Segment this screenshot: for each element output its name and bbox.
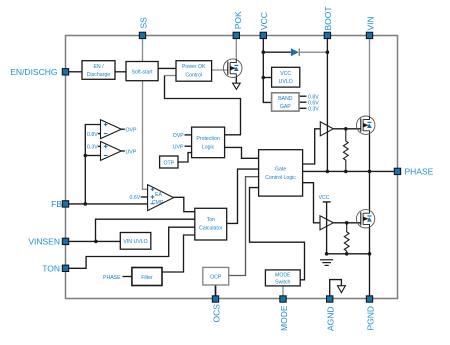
block Protection Logic [192,127,225,158]
wire VINSEN pin to VIN UVLO [69,240,120,242]
transistor Q3 low-side MOSFET [356,210,374,228]
svg-text:VCC: VCC [259,12,269,30]
op-amp comparator OVP [101,120,122,139]
svg-text:BOOT: BOOT [323,6,333,30]
VCC supply bar [323,201,331,203]
wire Power OK Control to Q1 gate [212,69,228,71]
node TON [62,265,68,271]
wire SS pin to EA CMP plus input [143,39,148,190]
svg-text:POK: POK [233,11,243,29]
svg-text:FB: FB [51,199,62,209]
wire VCC to diode anode [263,51,291,53]
svg-text:Power OK: Power OK [182,64,206,70]
wire ground row [327,253,370,255]
wire band gap stub 0.8V [299,95,307,97]
svg-text:UVP: UVP [173,144,184,150]
wire low-side driver output to Q3 gate [333,222,361,224]
wire MODE Switch to MODE pin [282,286,284,296]
wire band gap stub 0.3V [299,107,307,109]
block Gate Control Logic [259,150,303,196]
comparator plus/minus marks [104,123,154,204]
wire Q2 source to phase row [369,134,371,171]
wire Gate Control Logic to low-side driver [259,183,320,223]
wire VCC branch to VCC UVLO [263,77,271,79]
wire FB pin to EA CMP minus input [69,203,148,205]
ground arrow at AGND [338,286,346,293]
block BAND GAP [272,93,299,111]
svg-text:Logic: Logic [202,144,215,150]
node VINSEN [62,238,68,244]
svg-text:PHASE: PHASE [103,275,121,281]
node POK [233,32,239,38]
wire UVP comparator minus input [85,155,100,157]
wire TON pin to Ton Calculator [69,227,195,268]
wire EA CMP output to Ton Calculator [174,197,195,211]
node SS [139,32,145,38]
wire 0.3V stub to UVP comparator [98,145,101,147]
svg-text:OTP: OTP [163,160,174,166]
svg-text:UVP: UVP [126,149,137,155]
block OTP [160,156,178,168]
block Filter [132,268,162,286]
wire band gap stub 0.6V [299,101,307,103]
wire Power OK Control to Protection Logic loop [165,75,177,77]
wire Filter to Ton Calculator [162,235,195,272]
wire VCC pin down to BAND GAP [263,39,271,103]
svg-text:MODE: MODE [279,305,289,331]
svg-text:MODE: MODE [275,273,291,279]
svg-text:Protection: Protection [196,136,219,142]
wire OCP to Gate Control Logic [229,177,259,276]
svg-text:VIN: VIN [365,16,375,30]
op-amp error comparator EA CMP [148,185,174,211]
svg-text:VINSEN: VINSEN [28,237,60,247]
svg-text:Gate: Gate [275,167,286,173]
wire Ton Calculator to Gate Control Logic [227,169,259,223]
svg-text:GAP: GAP [280,104,291,110]
transistor Q2 high-side MOSFET [357,116,375,134]
svg-text:VCC: VCC [280,71,291,77]
node OCS [212,296,218,302]
wire POK pin to Q1 drain [235,39,237,59]
wire VINSEN branch to Ton Calculator [96,219,195,241]
svg-text:EN /: EN / [93,64,104,70]
svg-text:VIN UVLO: VIN UVLO [123,239,147,245]
block MODE Switch [265,270,300,286]
svg-text:EA: EA [155,192,162,198]
block Ton Calculator [195,208,227,240]
svg-text:0.6V: 0.6V [130,195,141,201]
block VCC UVLO [272,67,300,87]
wire 0.8V stub to OVP comparator [98,133,101,135]
block EN/Discharge [82,61,115,80]
svg-text:0.3V: 0.3V [87,145,98,151]
svg-text:BAND: BAND [278,96,293,102]
node EN/DISCHG [62,69,68,75]
svg-text:AGND: AGND [326,306,336,331]
wire AGND pin to ground arrow [330,280,342,296]
high-side gate driver buffer [320,122,333,136]
node VIN [366,32,372,38]
svg-text:Ton: Ton [207,217,215,223]
svg-text:OCP: OCP [210,275,222,281]
wire diode cathode to BOOT line [299,51,327,53]
svg-text:EN/DISCHG: EN/DISCHG [10,67,57,77]
node BOOT [324,32,330,38]
transistor Q1 POK open-drain MOSFET [223,59,242,78]
wire Soft-start to Power OK Control [158,67,176,69]
svg-text:0.8V: 0.8V [87,132,98,138]
node PGND [366,296,372,302]
ground symbol (3 bars) [320,260,333,266]
svg-text:PGND: PGND [365,306,375,331]
node AGND [327,296,333,302]
wire OTP to Protection Logic [178,153,192,162]
wire VIN pin down to Q2 drain [369,39,371,116]
svg-text:Calculator: Calculator [199,226,223,232]
svg-text:UVLO: UVLO [279,79,293,85]
svg-text:Soft-start: Soft-start [131,69,153,75]
wire Gate Control Logic to high-side driver [259,129,321,164]
svg-text:Control Logic: Control Logic [265,175,296,181]
outer IC boundary [66,36,398,299]
low-side gate driver buffer [320,216,333,230]
wire phase row to Q3 drain [369,171,371,209]
wire Q1 source to ground arrow [235,77,237,83]
wire EN/DISCHG pin to EN/Discharge block [69,71,82,73]
wire EN/Discharge to Soft-start [115,71,126,73]
svg-text:PHASE: PHASE [405,167,434,177]
wire FB branch up to OVP/UVP comparators [85,125,100,204]
wire Protection Logic to Gate Control Logic [225,147,259,158]
svg-text:SS: SS [138,17,148,29]
svg-text:CMP: CMP [152,200,164,206]
diode D1 VCC to BOOT [291,48,299,56]
op-amp comparator UVP [101,142,122,161]
IC pins (squares) [62,32,400,302]
svg-text:OVP: OVP [126,128,137,134]
resistor R1 high-side gate [343,129,348,172]
svg-text:Switch: Switch [275,280,290,286]
wire UVP comparator output [121,150,125,152]
wire OVP comparator output [121,128,125,130]
resistor R2 low-side gate [344,223,349,254]
block Soft-start [126,62,158,81]
svg-text:OVP: OVP [173,133,184,139]
block OCP [203,267,229,285]
svg-text:VCC: VCC [319,195,330,201]
node PHASE [394,168,400,174]
block VIN UVLO [120,233,151,250]
svg-text:OCS: OCS [211,304,221,323]
wire 0.6V stub to EA CMP [141,196,148,198]
node VCC [260,32,266,38]
wire VCC supply bar to low-side driver and ground [326,202,328,254]
svg-text:Control: Control [185,72,202,78]
ground arrow under Q1 [233,83,241,89]
node MODE [280,296,286,302]
wire OVP label to Protection Logic [185,134,192,136]
svg-text:Filter: Filter [141,275,153,281]
wire Gate Control Logic to MODE Switch [250,188,305,280]
wire UVP label to Protection Logic [185,145,192,147]
wire high-side driver output to Q2 gate [333,128,361,130]
wire BOOT pin down to phase row [326,39,328,172]
svg-text:Discharge: Discharge [87,72,110,78]
svg-text:TON: TON [42,264,60,274]
wire PHASE label to Filter [123,276,132,278]
node FB [62,201,68,207]
svg-text:0.3V: 0.3V [308,107,319,113]
wire phase row from Gate Control Logic to PHASE pin [303,170,395,172]
wire Q3 source to ground row and PGND pin [369,228,371,296]
wire OCP to OCS pin [215,285,217,296]
block Power OK Control [176,61,212,81]
